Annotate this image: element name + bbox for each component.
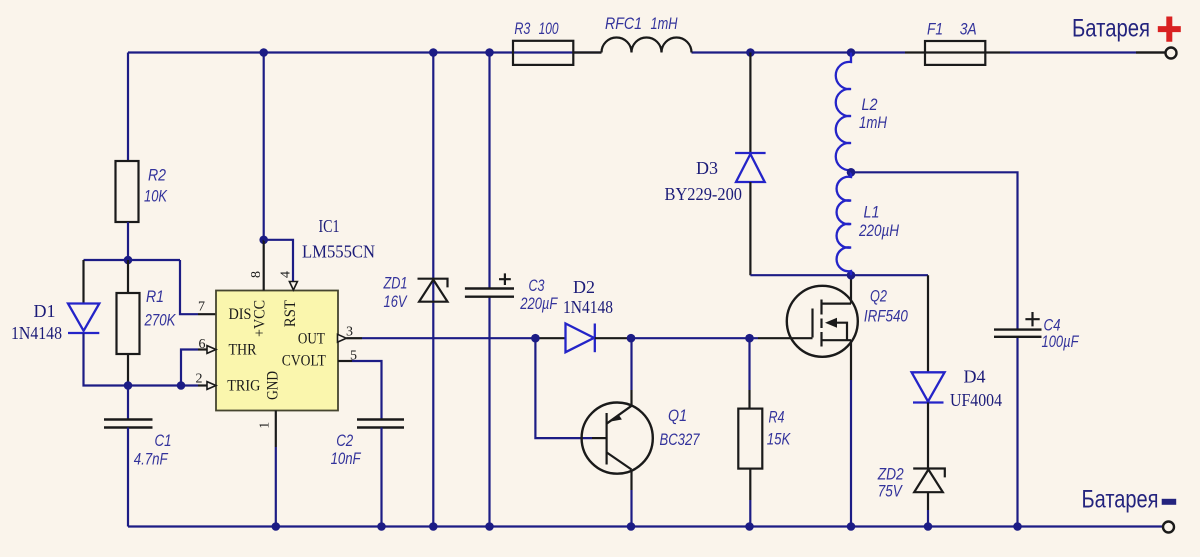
battery plus sign — [1158, 17, 1181, 42]
wire CVOLT to C2 — [338, 360, 352, 362]
resistor R2 — [116, 161, 139, 222]
wire OUT net — [346, 337, 362, 339]
node junction top rail VCC — [259, 48, 268, 57]
svg-text:4: 4 — [279, 271, 294, 278]
svg-text:1N4148: 1N4148 — [563, 297, 613, 317]
wire C2 bottom lead — [380, 428, 382, 527]
svg-text:BY229-200: BY229-200 — [665, 184, 743, 204]
arrow TRIG — [207, 382, 216, 390]
svg-text:L1: L1 — [864, 203, 880, 222]
node junction VCC/RST — [259, 236, 268, 245]
node junction top rail L2 — [847, 48, 856, 57]
node junction ZD1 bottom — [429, 522, 438, 531]
node junction OUT/D2/Q1base — [531, 334, 540, 343]
node junction ZD2 bottom — [924, 522, 933, 531]
wire Q1 emitter up — [630, 390, 632, 406]
svg-text:R2: R2 — [148, 166, 166, 185]
svg-text:D3: D3 — [696, 158, 718, 178]
resistor R1 — [117, 293, 140, 354]
node junction R2/R1/D1 — [124, 256, 133, 265]
wire Q1 base branch — [535, 338, 592, 438]
wire bottom rail — [128, 525, 1163, 527]
inductor L2 — [836, 53, 851, 173]
svg-text:+VCC: +VCC — [252, 300, 269, 337]
svg-text:Q2: Q2 — [870, 287, 887, 306]
capacitor C2 — [357, 420, 404, 428]
svg-text:TRIG: TRIG — [227, 377, 260, 394]
battery plus terminal — [1166, 48, 1177, 59]
wire C3 branch — [488, 53, 490, 527]
wire D4 to ZD2 — [927, 403, 929, 469]
svg-text:100µF: 100µF — [1042, 332, 1080, 351]
svg-text:THR: THR — [229, 341, 257, 358]
wire D3 anode lead — [749, 182, 751, 275]
node junction C2 bottom — [377, 522, 386, 531]
wire RST branch — [264, 240, 293, 281]
wire R1 bottom lead — [127, 354, 129, 386]
svg-text:220µF: 220µF — [520, 294, 559, 313]
wire ZD1 branch — [432, 53, 434, 527]
wire R2 bottom — [127, 222, 129, 260]
wire VCC vertical — [263, 53, 265, 240]
wire R4 top lead — [748, 338, 750, 390]
svg-text:DIS: DIS — [229, 306, 252, 323]
transistor Q2 IRF540 — [787, 286, 858, 357]
node junction C4 bottom — [1013, 522, 1022, 531]
wire top rail — [128, 51, 1136, 53]
op-amp U1 / timer IC1 LM555CN body — [216, 291, 338, 411]
svg-text:IC1: IC1 — [319, 216, 340, 236]
diode D2 — [566, 324, 595, 353]
wire GND stub — [275, 411, 277, 448]
wire R4 bottom lead — [749, 469, 751, 500]
svg-text:Батарея: Батарея — [1082, 486, 1159, 514]
svg-text:6: 6 — [199, 337, 206, 352]
node junction Q1 bottom — [627, 522, 636, 531]
wire C1 bottom lead — [127, 428, 129, 527]
node junction R4 tap — [745, 334, 754, 343]
wire VCC stub pin8 — [263, 240, 265, 291]
capacitor C1 — [104, 420, 153, 428]
svg-text:4.7nF: 4.7nF — [134, 450, 169, 469]
wire THR path — [181, 350, 198, 386]
zener ZD2 — [913, 469, 945, 493]
node junction C3 top — [485, 48, 494, 57]
svg-text:R1: R1 — [146, 287, 164, 306]
svg-text:RFC1: RFC1 — [605, 14, 642, 33]
svg-text:7: 7 — [198, 300, 205, 315]
arrow RST — [289, 282, 297, 291]
wire Q2 source down — [850, 340, 852, 380]
wire DIS path — [180, 260, 198, 314]
svg-text:RST: RST — [282, 300, 299, 327]
svg-text:C2: C2 — [336, 431, 353, 450]
diode D4 — [912, 372, 945, 402]
svg-text:75V: 75V — [878, 482, 903, 501]
svg-text:1N4148: 1N4148 — [11, 323, 62, 343]
svg-text:CVOLT: CVOLT — [282, 353, 326, 370]
svg-text:R3: R3 — [514, 19, 530, 38]
wire ZD2 bottom lead — [927, 492, 929, 510]
svg-text:C1: C1 — [155, 431, 172, 450]
svg-text:Батарея: Батарея — [1072, 15, 1150, 43]
wire node y275 horizontal — [750, 274, 928, 276]
svg-text:10nF: 10nF — [331, 449, 362, 468]
svg-text:220µH: 220µH — [858, 221, 899, 240]
node junction ZD1 top — [429, 48, 438, 57]
svg-text:1mH: 1mH — [859, 113, 888, 132]
svg-text:UF4004: UF4004 — [950, 390, 1002, 410]
node junction GND bottom — [272, 522, 281, 531]
svg-text:LM555CN: LM555CN — [302, 242, 375, 262]
wire horizontal y260 — [84, 259, 181, 261]
svg-text:BC327: BC327 — [660, 430, 700, 449]
wire TRIG net — [128, 384, 198, 386]
node junction top rail D3 — [746, 48, 755, 57]
inductor L1 — [837, 172, 851, 275]
wire battery plus stub — [1136, 51, 1165, 53]
wire D2 cathode to Q1/Q2 — [595, 337, 627, 339]
svg-text:D1: D1 — [34, 301, 56, 321]
zener ZD1 — [418, 279, 448, 302]
node junction L2/L1 — [847, 168, 856, 177]
svg-text:270K: 270K — [144, 311, 176, 330]
svg-text:D4: D4 — [964, 367, 986, 387]
wire D1 top lead — [82, 260, 84, 304]
battery minus sign — [1162, 499, 1177, 505]
svg-text:10K: 10K — [144, 187, 168, 206]
node junction C3 bottom — [485, 522, 494, 531]
svg-text:L2: L2 — [862, 95, 878, 114]
battery minus terminal — [1163, 522, 1174, 533]
wire top rail black segment R3-RFC1 — [573, 51, 602, 53]
svg-text:Q1: Q1 — [668, 406, 687, 425]
wire R1 top lead — [127, 260, 129, 293]
wire left column top — [127, 53, 129, 162]
node junction D2/Q1 collector — [627, 334, 636, 343]
svg-text:C3: C3 — [529, 276, 545, 295]
capacitor C3 — [465, 273, 514, 296]
fuse F1 — [925, 41, 985, 65]
transistor Q1 BC327 — [582, 403, 653, 474]
diode D1 — [68, 304, 99, 334]
inductor RFC1 — [602, 38, 692, 53]
node junction THR tap — [177, 381, 186, 390]
node junction R4 bottom — [745, 522, 754, 531]
svg-text:IRF540: IRF540 — [864, 307, 908, 326]
svg-text:ZD1: ZD1 — [383, 274, 408, 293]
node junction Q2 drain / L1 — [847, 271, 856, 280]
wire D1 bottom lead — [84, 333, 129, 385]
resistor R4 — [738, 409, 762, 469]
node junction TRIG net — [124, 381, 133, 390]
arrow THR — [207, 346, 216, 354]
node junction Q2 source bottom — [847, 522, 856, 531]
wire D4 branch top — [927, 275, 929, 372]
wire Q1 collector down — [630, 470, 632, 491]
wire L2/L1 node to C4 column — [851, 172, 1018, 526]
diode D3 — [735, 153, 766, 182]
svg-text:3A: 3A — [960, 20, 977, 39]
svg-text:D2: D2 — [573, 277, 595, 297]
svg-text:R4: R4 — [769, 408, 785, 427]
svg-text:100: 100 — [539, 19, 559, 38]
wire D3 cathode lead — [749, 53, 751, 154]
svg-text:OUT: OUT — [298, 330, 325, 347]
svg-text:GND: GND — [265, 371, 282, 400]
svg-text:8: 8 — [249, 271, 264, 278]
svg-text:1mH: 1mH — [651, 14, 679, 33]
svg-text:16V: 16V — [384, 292, 408, 311]
svg-text:1: 1 — [258, 422, 273, 429]
wire C1 top lead — [127, 386, 129, 420]
svg-text:F1: F1 — [927, 20, 943, 39]
wire Q2 drain up — [850, 275, 852, 303]
svg-text:2: 2 — [196, 372, 203, 387]
resistor R3 — [513, 41, 573, 65]
capacitor C4 — [994, 312, 1042, 337]
arrow OUT — [338, 334, 347, 342]
svg-text:15K: 15K — [767, 430, 791, 449]
